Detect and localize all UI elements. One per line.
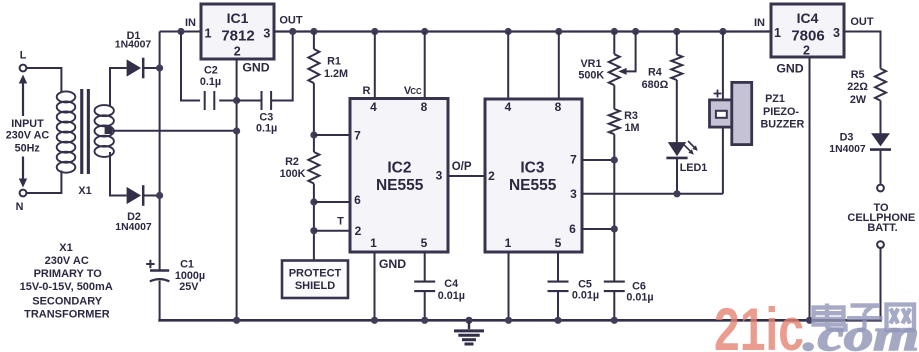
wire center tap to ground column: [110, 130, 237, 132]
label PZ1 PIEZO-BUZZER: [761, 93, 805, 131]
svg-text:C2: C2: [204, 65, 218, 77]
svg-text:R3: R3: [624, 110, 638, 122]
wire IC3 pin8 riser: [558, 32, 560, 100]
potentiometer VR1: [609, 54, 620, 85]
svg-text:0.1µ: 0.1µ: [256, 122, 277, 134]
svg-text:50Hz: 50Hz: [15, 142, 41, 154]
wire IC3 pin4 riser: [507, 32, 509, 100]
junction GND column rail: [233, 317, 240, 324]
wire GND column to C3: [237, 100, 262, 102]
svg-text:15V-0-15V, 500mA: 15V-0-15V, 500mA: [20, 281, 113, 293]
wire IC2 pin8 riser: [424, 32, 426, 99]
capacitor C4: [414, 282, 435, 292]
svg-text:0.01µ: 0.01µ: [438, 290, 465, 302]
pin 3 IC1: [263, 26, 270, 40]
wire IC4 GND to rail: [809, 57, 811, 322]
input arrow down: [19, 157, 27, 188]
svg-text:21ic: 21ic: [714, 296, 804, 352]
wire C2 to GND column: [219, 100, 236, 102]
svg-text:22Ω: 22Ω: [847, 81, 868, 93]
capacitor C2: [205, 91, 215, 110]
wire C5 to rail: [557, 291, 559, 322]
svg-text:GND: GND: [242, 61, 269, 75]
svg-text:O/P: O/P: [452, 161, 472, 173]
svg-text:1N4007: 1N4007: [115, 39, 152, 50]
svg-text:R: R: [363, 85, 371, 97]
label IC3 NE555: [509, 160, 557, 195]
junction pin6: [310, 198, 317, 205]
svg-text:4: 4: [370, 100, 377, 114]
resistor R3: [609, 109, 620, 134]
svg-text:680Ω: 680Ω: [642, 79, 669, 91]
junction ground symbol rail: [465, 317, 472, 324]
label O/P: [452, 161, 472, 173]
node output negative terminal: [877, 241, 884, 248]
pin 1 IC3: [505, 236, 512, 250]
svg-text:R5: R5: [851, 69, 865, 81]
resistor R4: [671, 55, 682, 81]
wire IN branch down to C2: [181, 32, 200, 101]
LED LED1: [666, 141, 697, 158]
svg-text:5: 5: [421, 236, 428, 250]
label TO CELLPHONE BATT: [847, 202, 915, 234]
pin 1 IC1: [205, 26, 212, 40]
label R5 22ohm 2W: [847, 69, 868, 106]
svg-text:IC2: IC2: [387, 160, 411, 177]
svg-text:3: 3: [436, 168, 443, 182]
label R pin4: [363, 85, 371, 97]
VR1 wiper arrow: [618, 32, 635, 75]
svg-text:230V AC: 230V AC: [6, 130, 50, 142]
junction VR1 rail: [611, 28, 618, 35]
wire ground bottom rail: [158, 319, 882, 322]
svg-text:PROTECT: PROTECT: [289, 267, 342, 279]
label T: [337, 216, 344, 228]
pin 3 IC4: [833, 26, 840, 40]
wire secondary top to D1: [110, 68, 127, 106]
label C6 0.01u: [626, 280, 653, 303]
label INPUT 230V AC 50Hz: [6, 118, 50, 154]
wire D3 to output terminal: [880, 151, 882, 185]
transformer X1 primary winding: [57, 91, 76, 172]
junction IC3 pin8 rail: [555, 28, 562, 35]
svg-text:X1: X1: [59, 242, 72, 254]
svg-text:OUT: OUT: [850, 16, 874, 28]
svg-text:3: 3: [570, 187, 577, 201]
node L (live input terminal): [20, 50, 27, 72]
svg-text:C6: C6: [632, 280, 646, 292]
label VR1 500K: [578, 58, 604, 82]
diode D1: [127, 58, 144, 79]
capacitor C1: [146, 260, 169, 282]
svg-text:PRIMARY TO: PRIMARY TO: [34, 268, 103, 280]
pin 8 IC2: [421, 100, 428, 114]
svg-text:L: L: [20, 50, 27, 62]
svg-text:TRANSFORMER: TRANSFORMER: [24, 309, 110, 321]
svg-text:C4: C4: [444, 278, 458, 290]
wire IC3 pin3 output line: [582, 193, 723, 195]
svg-text:1: 1: [205, 26, 212, 40]
timer IC2: [350, 99, 448, 253]
wire IC4 OUT to R5: [844, 32, 881, 69]
transformer X1 secondary winding: [95, 105, 114, 157]
label R2 100K: [280, 156, 306, 180]
label X1: [78, 185, 91, 197]
label GND IC4: [776, 61, 803, 75]
wire IC3 pin7 stub: [582, 159, 614, 161]
label C3 0.1u: [256, 112, 277, 135]
junction IN branch: [177, 28, 184, 35]
label D1 1N4007: [115, 30, 152, 51]
svg-text:3: 3: [833, 26, 840, 40]
svg-text:1M: 1M: [625, 122, 640, 134]
regulator IC1: [201, 4, 274, 59]
wire IC2 pin5 to C4: [424, 252, 426, 282]
pin 4 IC3: [505, 100, 512, 114]
label D2 1N4007: [115, 211, 152, 233]
wire D2 to rectifier column: [143, 195, 159, 197]
pin 4 IC2: [370, 100, 377, 114]
wire R2 to pin6 junction: [313, 184, 315, 261]
label R3 1M: [624, 110, 639, 134]
svg-text:BATT.: BATT.: [867, 222, 897, 234]
svg-text:NE555: NE555: [376, 177, 424, 194]
wire R3 to pin7 junction and down: [613, 134, 615, 282]
svg-text:1: 1: [370, 236, 377, 250]
svg-text:25V: 25V: [179, 281, 199, 293]
svg-text:500K: 500K: [578, 70, 604, 82]
label C5 0.01u: [572, 278, 599, 301]
junction IC3 pin1 rail: [505, 317, 512, 324]
junction IC2 pin8 rail: [421, 28, 428, 35]
svg-text:6: 6: [569, 222, 576, 236]
svg-text:D2: D2: [127, 211, 141, 223]
junction center tap GND: [233, 127, 240, 134]
label LED1: [680, 162, 708, 174]
junction IC4 GND rail: [806, 317, 813, 324]
wire rail to piezo: [722, 32, 724, 101]
junction IC2 pin1 rail: [371, 317, 378, 324]
wire rectifier to IC1 IN: [160, 31, 201, 33]
wire pin2 stub: [314, 230, 350, 232]
pin 6 IC2: [354, 193, 361, 207]
pin 2 IC1: [234, 45, 241, 59]
wire secondary bottom to D2: [110, 152, 127, 196]
wire IC2 pin4 riser: [374, 32, 376, 99]
svg-text:230V AC: 230V AC: [45, 255, 89, 267]
junction IC2 pin4 rail: [371, 28, 378, 35]
svg-text:IC1: IC1: [227, 10, 249, 26]
svg-text:IN: IN: [754, 17, 765, 29]
junction C5 rail: [554, 317, 561, 324]
label C1 1000u 25V: [175, 258, 205, 293]
junction LED output: [673, 190, 680, 197]
wire L to primary top: [27, 68, 62, 93]
svg-text:CC: CC: [410, 87, 422, 96]
svg-text:2: 2: [234, 45, 241, 59]
label Vcc pin8: [404, 85, 422, 97]
input arrow up: [19, 75, 27, 117]
svg-text:T: T: [337, 216, 344, 228]
node center tap: [105, 126, 113, 134]
node output positive terminal: [877, 185, 884, 192]
svg-text:5: 5: [555, 236, 562, 250]
wire piezo to output line: [722, 127, 724, 194]
svg-text:R4: R4: [648, 66, 662, 78]
svg-text:LED1: LED1: [680, 162, 708, 174]
junction R3 pin7: [611, 156, 618, 163]
wire +12V top rail: [274, 30, 771, 32]
wire rail to VR1: [613, 32, 615, 55]
pin 3 IC3: [570, 187, 577, 201]
svg-text:7: 7: [354, 128, 361, 142]
svg-text:R1: R1: [327, 56, 341, 68]
svg-text:NE555: NE555: [509, 177, 557, 194]
label IN IC1: [185, 17, 196, 29]
protect shield box: [282, 261, 348, 299]
svg-text:1: 1: [505, 236, 512, 250]
pin 7 IC2: [354, 128, 361, 142]
pin 2 IC3: [488, 169, 495, 183]
svg-text:7806: 7806: [791, 27, 824, 44]
junction pin2: [310, 227, 317, 234]
wire C4 to rail: [424, 291, 426, 322]
svg-text:PZ1: PZ1: [765, 93, 785, 105]
wire IC3 pin5 to C5: [557, 252, 559, 282]
junction R4 rail: [673, 28, 680, 35]
wire LED1 to output line: [676, 158, 678, 194]
svg-text:GND: GND: [776, 61, 803, 75]
svg-text:INPUT: INPUT: [11, 118, 44, 130]
capacitor C6: [604, 282, 625, 292]
label GND IC2: [379, 257, 406, 271]
svg-text:2: 2: [355, 224, 362, 238]
svg-text:4: 4: [505, 100, 512, 114]
junction IC3 pin4 rail: [505, 28, 512, 35]
junction C3 rail: [289, 28, 296, 35]
wire pin7 stub: [314, 134, 350, 136]
label R4 680ohm: [642, 66, 669, 91]
junction R1 rail: [310, 28, 317, 35]
wire C1 to bottom rail: [159, 281, 161, 322]
label C2 0.1u: [200, 65, 221, 88]
wire R4 to LED1: [676, 80, 678, 143]
label R1 1.2M: [324, 56, 348, 80]
svg-text:PIEZO-: PIEZO-: [763, 106, 799, 118]
label OUT IC1: [279, 14, 303, 26]
svg-text:SHIELD: SHIELD: [295, 280, 335, 292]
resistor R5: [875, 69, 886, 101]
junction D1 column: [156, 64, 163, 71]
svg-text:C1: C1: [180, 258, 194, 270]
svg-text:VR1: VR1: [580, 58, 601, 70]
junction pin7: [310, 131, 317, 138]
junction VR1 wiper rail: [632, 28, 639, 35]
svg-text:1N4007: 1N4007: [829, 144, 866, 155]
junction C4 rail: [421, 317, 428, 324]
svg-text:N: N: [16, 201, 24, 213]
wire IC3 pin6 stub: [582, 228, 614, 230]
pin 5 IC3: [555, 236, 562, 250]
junction piezo rail: [719, 28, 726, 35]
svg-text:0.01µ: 0.01µ: [572, 290, 599, 302]
svg-text:IC4: IC4: [797, 10, 819, 26]
svg-text:0.1µ: 0.1µ: [200, 76, 221, 88]
ground: [454, 320, 484, 344]
regulator IC4: [771, 4, 844, 57]
pin 5 IC2: [421, 236, 428, 250]
pin 2 IC2: [355, 224, 362, 238]
capacitor C5: [548, 282, 569, 292]
junction D2 column: [156, 192, 163, 199]
wire pin6 stub: [314, 201, 350, 203]
svg-text:OUT: OUT: [279, 14, 303, 26]
pin 1 IC4: [774, 26, 781, 40]
svg-text:2: 2: [488, 169, 495, 183]
label piezo plus: [714, 90, 722, 98]
diode D3: [870, 133, 891, 149]
svg-text:0.01µ: 0.01µ: [626, 292, 653, 304]
capacitor C3: [262, 91, 272, 110]
timer IC3: [485, 99, 582, 252]
wire D1 to rectifier column: [143, 67, 159, 69]
junction pin6 column: [611, 225, 618, 232]
watermark dianziwang characters: [814, 304, 915, 331]
pin 8 IC3: [555, 100, 562, 114]
label PROTECT SHIELD: [289, 267, 342, 292]
svg-text:7: 7: [570, 153, 577, 167]
wire rectifier column: [159, 32, 161, 271]
pin 2 IC4: [803, 43, 810, 57]
svg-text:D3: D3: [840, 132, 854, 144]
label OUT IC4: [850, 16, 874, 28]
transformer X1 core: [80, 89, 90, 174]
label IN IC4: [754, 17, 765, 29]
svg-text:8: 8: [555, 100, 562, 114]
svg-text:2W: 2W: [850, 94, 867, 106]
svg-text:SECONDARY: SECONDARY: [32, 296, 103, 308]
svg-text:1N4007: 1N4007: [115, 222, 152, 233]
svg-text:2: 2: [803, 43, 810, 57]
wire IC1 GND column: [236, 59, 238, 322]
label D3 1N4007: [829, 132, 866, 156]
svg-text:1.2M: 1.2M: [324, 68, 348, 80]
junction C2 C3 GND: [233, 97, 240, 104]
svg-text:8: 8: [421, 100, 428, 114]
label C4 0.01u: [438, 278, 465, 302]
wire IC2 pin1 to rail: [374, 252, 376, 322]
pin 7 IC3: [570, 153, 577, 167]
wire C3 up to OUT rail: [271, 32, 293, 101]
label X1 transformer caption: [20, 242, 113, 321]
label IC2 NE555: [376, 160, 424, 195]
pin 1 IC2: [370, 236, 377, 250]
svg-text:IN: IN: [185, 17, 196, 29]
wire rail to R4: [676, 32, 678, 55]
node N (neutral input terminal): [16, 190, 27, 213]
wire R1 to pin7 junction: [313, 83, 315, 152]
pin 3 IC2: [436, 168, 443, 182]
label GND IC1: [242, 61, 269, 75]
diode D2: [127, 185, 144, 206]
svg-text:BUZZER: BUZZER: [761, 118, 805, 130]
junction C6 rail: [611, 317, 618, 324]
svg-text:R2: R2: [285, 156, 299, 168]
svg-text:100K: 100K: [280, 168, 306, 180]
wire N to primary bottom: [27, 171, 62, 194]
resistor R2: [308, 152, 319, 184]
wire R5 to D3: [880, 101, 882, 135]
svg-text:6: 6: [354, 193, 361, 207]
wire O/P IC2 to IC3: [448, 175, 485, 177]
svg-text:IC3: IC3: [520, 160, 545, 177]
svg-text:GND: GND: [379, 257, 406, 271]
label IC4 7806: [791, 10, 824, 45]
piezo buzzer PZ1: [710, 82, 752, 144]
wire C6 to rail: [613, 291, 615, 322]
svg-text:3: 3: [263, 26, 270, 40]
label IC1 7812: [221, 10, 254, 45]
wire VR1 to R3: [613, 85, 615, 109]
resistor R1: [308, 49, 319, 83]
wire IC3 pin1 to rail: [508, 252, 510, 322]
pin 6 IC3: [569, 222, 576, 236]
wire output negative to rail: [880, 248, 882, 322]
svg-text:X1: X1: [78, 185, 91, 197]
wire rail to R1: [313, 32, 315, 50]
svg-text:7812: 7812: [221, 27, 254, 44]
svg-text:1: 1: [774, 26, 781, 40]
